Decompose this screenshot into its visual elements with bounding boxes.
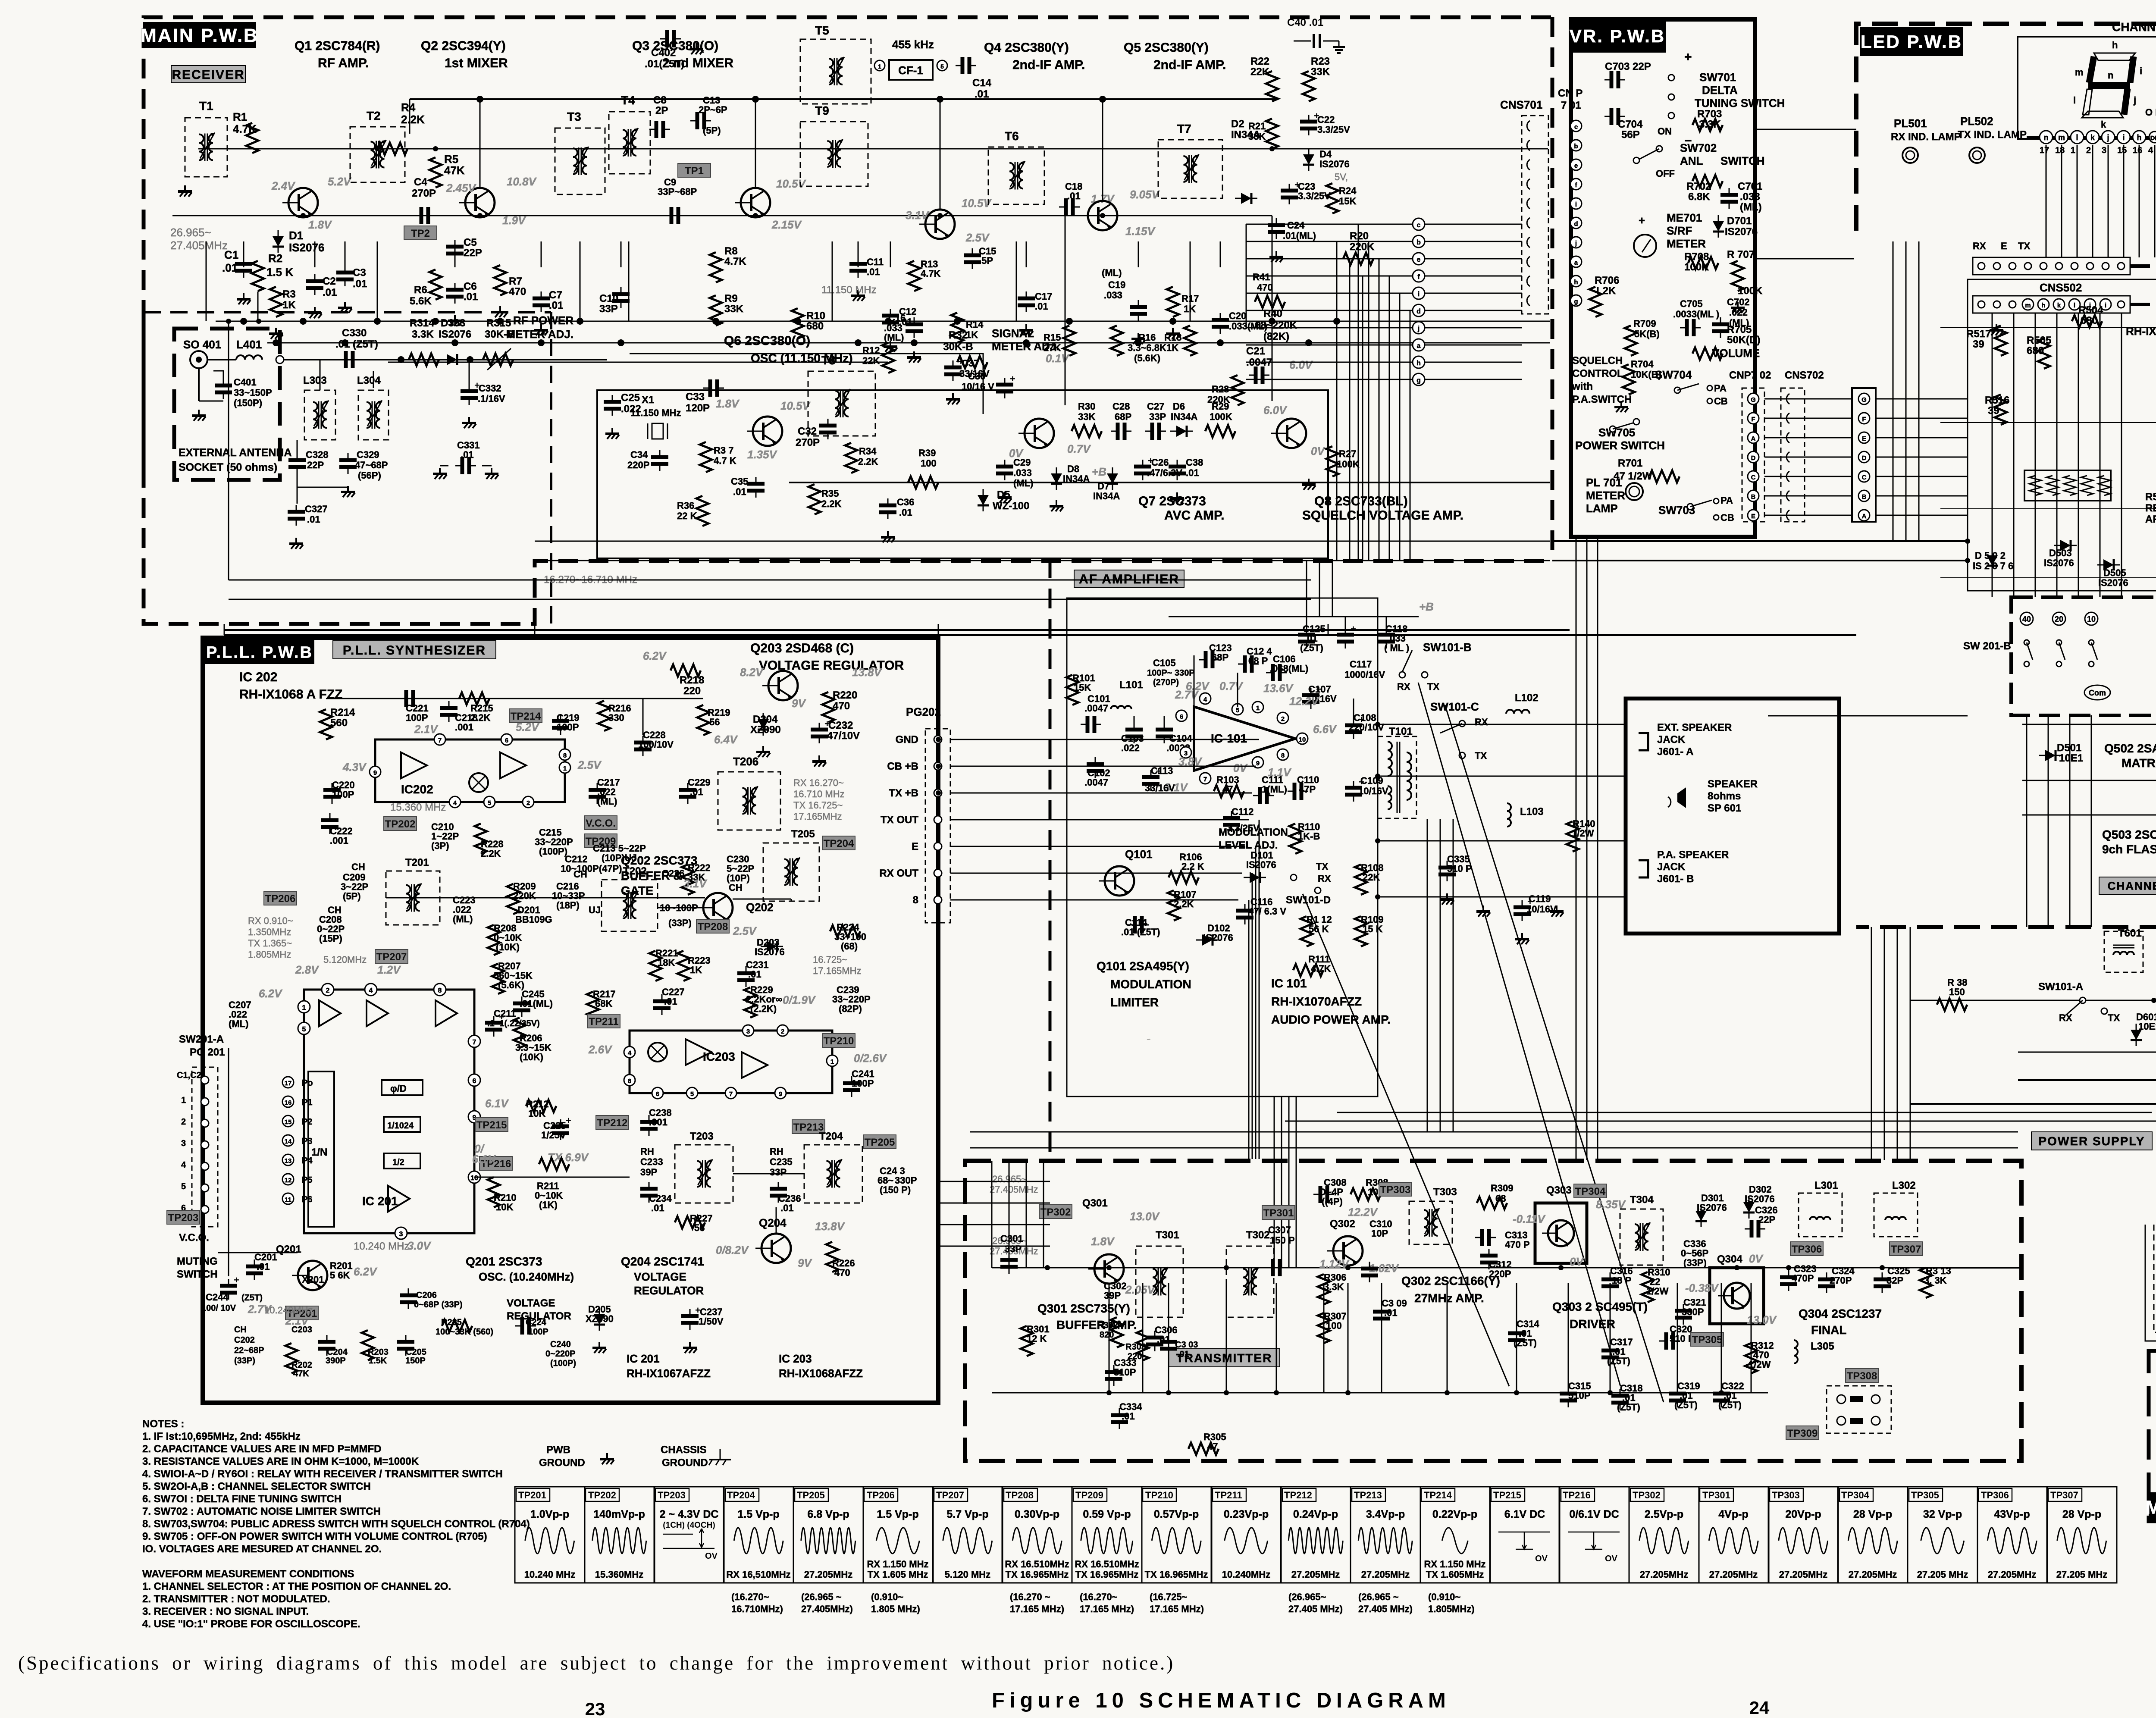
svg-text:D204: D204 bbox=[753, 714, 778, 725]
svg-text:3: 3 bbox=[746, 1028, 750, 1035]
svg-text:(16.270 ~: (16.270 ~ bbox=[1010, 1592, 1050, 1602]
pin IC101-5 bbox=[1232, 704, 1243, 715]
svg-text:E: E bbox=[1751, 513, 1755, 520]
svg-text:Q304 2SC1237: Q304 2SC1237 bbox=[1799, 1307, 1882, 1320]
waveform cell TP211 bbox=[1211, 1487, 1281, 1583]
capacitor C108 bbox=[1353, 718, 1354, 725]
svg-text:R225: R225 bbox=[441, 1318, 462, 1327]
test point TP201 bbox=[285, 1306, 318, 1320]
svg-text:L103: L103 bbox=[1520, 806, 1544, 818]
wire IC201 to T203 bbox=[474, 1177, 630, 1178]
wire PLL left bus bbox=[228, 1048, 229, 1276]
resistor R315 bbox=[483, 354, 513, 366]
capacitor C35 bbox=[755, 477, 757, 484]
svg-text:11.150 MHz: 11.150 MHz bbox=[821, 284, 877, 296]
wire bend bbox=[1246, 310, 1247, 328]
pin 5 bbox=[937, 60, 947, 71]
capacitor C315 bbox=[1568, 1387, 1569, 1394]
wire CNP702-CNS702 E bbox=[1764, 437, 1852, 439]
svg-text:METER: METER bbox=[1586, 489, 1625, 502]
svg-text:TX 16.965MHz: TX 16.965MHz bbox=[1145, 1569, 1208, 1580]
svg-text:TP303: TP303 bbox=[1380, 1184, 1411, 1196]
pin IC203-6 bbox=[652, 1087, 663, 1099]
receiver lower boundary dashes bbox=[144, 311, 551, 313]
svg-text:10.5V: 10.5V bbox=[776, 177, 807, 190]
pin main-c bbox=[1413, 218, 1425, 230]
capacitor C319 bbox=[1677, 1387, 1678, 1394]
wire component stub bbox=[345, 241, 346, 267]
svg-text:4: 4 bbox=[628, 1050, 632, 1057]
resistor R110 bbox=[1289, 824, 1301, 854]
svg-text:POWER SUPPLY: POWER SUPPLY bbox=[2038, 1134, 2145, 1148]
svg-text:C226: C226 bbox=[662, 868, 685, 879]
svg-text:100P~ 330P: 100P~ 330P bbox=[1147, 668, 1195, 678]
svg-text:1.5 Vp-p: 1.5 Vp-p bbox=[877, 1508, 918, 1520]
svg-text:CONTROL: CONTROL bbox=[1572, 368, 1623, 379]
speaker symbol bbox=[1677, 787, 1686, 808]
svg-text:TP302: TP302 bbox=[1040, 1206, 1071, 1218]
svg-text:TP208: TP208 bbox=[698, 921, 728, 933]
svg-text:d: d bbox=[1574, 220, 1578, 228]
svg-text:10: 10 bbox=[2087, 615, 2096, 623]
wire VR to transmitter bbox=[1586, 537, 1588, 1160]
svg-text:i: i bbox=[1575, 201, 1577, 208]
contact CNS701-5 bbox=[1527, 198, 1530, 209]
svg-text:27MHz AMP.: 27MHz AMP. bbox=[1414, 1291, 1484, 1305]
svg-text:56: 56 bbox=[709, 717, 720, 727]
svg-text:(0.910~: (0.910~ bbox=[871, 1592, 903, 1602]
capacitor C237 bbox=[689, 1309, 691, 1316]
svg-text:RF AMP.: RF AMP. bbox=[318, 56, 369, 70]
wire collector stub bbox=[479, 99, 481, 188]
contact CNS702-7 bbox=[1786, 510, 1789, 520]
wire PG202 to AF bbox=[950, 899, 1238, 901]
MAIN P.W.B board outline bbox=[144, 17, 1552, 471]
ground bbox=[857, 290, 859, 296]
svg-text:2: 2 bbox=[526, 799, 530, 807]
capacitor C23 bbox=[1289, 184, 1290, 191]
svg-text:24: 24 bbox=[1749, 1698, 1770, 1718]
svg-text:E: E bbox=[2001, 241, 2007, 251]
svg-text:j: j bbox=[2106, 133, 2109, 142]
wire main bottom bus bbox=[535, 541, 1550, 542]
svg-text:100K: 100K bbox=[1210, 411, 1232, 422]
svg-text:h: h bbox=[1574, 279, 1578, 286]
resistor R226 bbox=[826, 1242, 838, 1272]
svg-text:2P: 2P bbox=[655, 105, 668, 116]
capacitor C124 bbox=[1238, 664, 1245, 665]
svg-text:G: G bbox=[1861, 396, 1867, 404]
TP308 trimmer box bbox=[1827, 1386, 1891, 1433]
PWB boundary dash vertical bbox=[1049, 558, 1052, 1160]
capacitor C314 bbox=[1516, 1326, 1517, 1333]
coil bbox=[1885, 1217, 1906, 1220]
svg-text:CHANNEL IND: CHANNEL IND bbox=[2108, 879, 2156, 892]
junction bbox=[1514, 1390, 1519, 1395]
svg-text:LIMITER: LIMITER bbox=[1110, 996, 1159, 1009]
connector CNS702 bbox=[1781, 388, 1805, 522]
junction bbox=[1965, 539, 1970, 544]
wire RX/TX diagonal 1 bbox=[1418, 683, 1620, 1386]
svg-text:3.3K: 3.3K bbox=[1699, 119, 1721, 130]
wire LED horizontal bbox=[1940, 577, 2156, 578]
capacitor C119 bbox=[1522, 900, 1523, 907]
diode D2 bbox=[1241, 193, 1251, 204]
capacitor C4 bbox=[414, 215, 421, 216]
svg-text:27.405MHz: 27.405MHz bbox=[990, 1184, 1038, 1195]
wire left riser bbox=[228, 321, 229, 580]
pin IC201-5 bbox=[298, 1022, 310, 1034]
svg-text:L101: L101 bbox=[1119, 679, 1143, 691]
svg-text:P.A. SPEAKER: P.A. SPEAKER bbox=[1657, 849, 1729, 861]
wire AF stub bbox=[1353, 699, 1354, 719]
wire Q202 to T205 bbox=[733, 899, 791, 900]
wire CNP702-CNS702 D bbox=[1764, 457, 1852, 458]
wire transformer drop bbox=[1190, 241, 1191, 321]
ground bbox=[1556, 905, 1557, 912]
pin IC203-4 bbox=[624, 1046, 635, 1058]
svg-text:220K: 220K bbox=[1207, 394, 1230, 405]
resistor R111 bbox=[1293, 964, 1323, 976]
wire AF stub bbox=[1345, 617, 1346, 633]
svg-text:68K: 68K bbox=[595, 998, 612, 1009]
svg-text:(5P): (5P) bbox=[703, 125, 721, 136]
wire VR to transmitter bbox=[1597, 537, 1598, 1160]
svg-text:TP305: TP305 bbox=[1692, 1334, 1723, 1346]
wire CNS701 cable right bbox=[1425, 362, 1522, 363]
capacitor C317 bbox=[1610, 1344, 1611, 1350]
resistor R208 bbox=[488, 925, 500, 955]
svg-text:D1: D1 bbox=[289, 229, 303, 242]
capacitor C2 bbox=[314, 274, 316, 281]
wire AF to speaker bbox=[1378, 776, 1626, 777]
svg-text:C232: C232 bbox=[828, 720, 853, 731]
svg-text:9. SW705 : OFF-ON POWER S: 9. SW705 : OFF-ON POWER SWITCH WITH VOLU… bbox=[142, 1531, 487, 1542]
svg-text:J601- A: J601- A bbox=[1657, 746, 1694, 758]
wire LED to SW201B bbox=[2013, 313, 2015, 597]
ground bbox=[599, 1342, 600, 1348]
svg-text:.01: .01 bbox=[464, 291, 478, 303]
svg-text:R 707: R 707 bbox=[1727, 249, 1755, 260]
svg-text:j: j bbox=[1417, 325, 1420, 332]
wire transmitter ground stub bbox=[1142, 1283, 1144, 1393]
resistor R229 bbox=[744, 987, 756, 1018]
svg-text:TP205: TP205 bbox=[797, 1490, 825, 1501]
svg-text:(100P): (100P) bbox=[550, 1359, 576, 1368]
svg-text:150 P: 150 P bbox=[1270, 1235, 1295, 1246]
svg-text:4.7K: 4.7K bbox=[233, 122, 257, 135]
svg-text:MODULATION: MODULATION bbox=[1110, 977, 1191, 991]
pin CNP701-a bbox=[1570, 256, 1582, 267]
LED circuit area outline bbox=[1968, 279, 2156, 591]
svg-text:RX 16,510MHz: RX 16,510MHz bbox=[726, 1569, 790, 1580]
svg-text:(26.965 ~: (26.965 ~ bbox=[801, 1592, 842, 1602]
svg-text:T601: T601 bbox=[2118, 927, 2142, 939]
svg-text:C: C bbox=[1862, 474, 1867, 481]
svg-text:j: j bbox=[1575, 240, 1577, 247]
wire AF to transmitter drop bbox=[1288, 1097, 1290, 1268]
svg-text:T101: T101 bbox=[1389, 726, 1413, 737]
svg-text:TP210: TP210 bbox=[1145, 1490, 1173, 1501]
svg-text:TP307: TP307 bbox=[1891, 1244, 1921, 1255]
svg-text:C30: C30 bbox=[968, 371, 985, 382]
junction bbox=[398, 357, 404, 362]
svg-text:D8: D8 bbox=[1067, 464, 1079, 474]
svg-text:0.59 Vp-p: 0.59 Vp-p bbox=[1083, 1508, 1131, 1520]
svg-text:7. SW702 : AUTOMATIC NOISE: 7. SW702 : AUTOMATIC NOISE LIMITER SWITC… bbox=[142, 1506, 381, 1517]
junction bbox=[398, 356, 404, 363]
svg-text:22K: 22K bbox=[1363, 872, 1380, 883]
svg-text:C235: C235 bbox=[770, 1156, 793, 1167]
wire main-to-LED bus 2 bbox=[1552, 560, 1968, 561]
svg-text:(56P): (56P) bbox=[358, 470, 381, 481]
svg-text:Q1 2SC784(R): Q1 2SC784(R) bbox=[295, 39, 380, 53]
junction bbox=[1786, 1265, 1791, 1270]
svg-text:C22: C22 bbox=[1317, 114, 1335, 125]
pin IC201-11 bbox=[282, 1193, 294, 1204]
terminal bbox=[1291, 874, 1297, 880]
svg-text:R5 01: R5 01 bbox=[2145, 491, 2156, 503]
svg-text:4Vp-p: 4Vp-p bbox=[1718, 1508, 1748, 1520]
pin main-h bbox=[1413, 356, 1425, 368]
junction bbox=[497, 318, 504, 325]
wire PG202 to AF bbox=[950, 793, 1252, 794]
svg-text:R35: R35 bbox=[821, 488, 839, 499]
wire AF to speaker bbox=[1378, 896, 1626, 898]
svg-text:6. SW7OI : DELTA FINE TUN: 6. SW7OI : DELTA FINE TUNING SWITCH bbox=[142, 1493, 342, 1505]
waveform cell TP212 bbox=[1281, 1487, 1351, 1583]
resistor R140 bbox=[1567, 821, 1579, 852]
ground bbox=[275, 328, 277, 334]
transformer T204 bbox=[804, 1145, 862, 1203]
svg-text:F: F bbox=[1862, 416, 1866, 423]
pin CNS502 bbox=[2009, 301, 2016, 308]
svg-text:100K: 100K bbox=[1337, 459, 1360, 470]
svg-text:23: 23 bbox=[585, 1699, 605, 1718]
svg-text:6.2V: 6.2V bbox=[259, 987, 283, 1000]
svg-text:f: f bbox=[1417, 273, 1420, 281]
pin conn1 bbox=[2024, 263, 2031, 269]
svg-text:Q304: Q304 bbox=[1717, 1253, 1742, 1265]
resistor R228 bbox=[475, 824, 487, 854]
svg-text:+: + bbox=[1010, 373, 1015, 384]
waveform cell TP302 bbox=[1629, 1487, 1699, 1583]
section label POWER SUPPLY bbox=[2031, 1132, 2152, 1150]
svg-text:T5: T5 bbox=[815, 24, 829, 37]
svg-text:220K: 220K bbox=[513, 890, 536, 901]
wire C401 tap bbox=[213, 371, 223, 379]
wire AGC bus bbox=[267, 342, 1550, 344]
transformer T201 bbox=[386, 871, 440, 925]
junction bbox=[1734, 1265, 1739, 1270]
ground bbox=[1056, 500, 1057, 506]
svg-text:.001: .001 bbox=[649, 1117, 667, 1128]
test point TP216 bbox=[479, 1156, 512, 1170]
test point TP308 bbox=[1846, 1369, 1878, 1382]
waveform cell TP210 bbox=[1142, 1487, 1212, 1583]
svg-text:TX: TX bbox=[1316, 861, 1328, 872]
svg-text:15.360MHz: 15.360MHz bbox=[595, 1569, 644, 1580]
transformer T2 bbox=[350, 127, 405, 182]
test point TP204 bbox=[822, 836, 855, 850]
svg-text:33K: 33K bbox=[1078, 411, 1095, 422]
svg-text:1.5K: 1.5K bbox=[369, 1356, 387, 1366]
contact CNS701-6 bbox=[1527, 218, 1530, 228]
pin main-d bbox=[1413, 304, 1425, 316]
svg-text:TX: TX bbox=[2018, 241, 2030, 251]
svg-text:C34: C34 bbox=[630, 449, 648, 460]
svg-text:4.7K: 4.7K bbox=[724, 256, 746, 267]
svg-text:0.7V: 0.7V bbox=[1219, 680, 1244, 692]
resistor R309 bbox=[1477, 1197, 1507, 1209]
chassis ground symbol bbox=[720, 1449, 721, 1460]
svg-text:270P: 270P bbox=[1830, 1275, 1852, 1286]
svg-text:TP202: TP202 bbox=[385, 818, 416, 830]
svg-text:IC 202: IC 202 bbox=[239, 670, 277, 684]
pin IC101-6 bbox=[1176, 710, 1187, 721]
svg-text:(Z5T): (Z5T) bbox=[1718, 1400, 1742, 1410]
pin main-e bbox=[1413, 253, 1425, 265]
svg-text:C14: C14 bbox=[972, 77, 992, 89]
svg-text:11: 11 bbox=[285, 1196, 291, 1203]
wire +B bus main bbox=[789, 482, 1550, 483]
capacitor C227 bbox=[661, 994, 663, 1001]
svg-text:27.405MHz: 27.405MHz bbox=[170, 239, 228, 252]
pin CNP702-G bbox=[1748, 393, 1759, 404]
capacitor C333 bbox=[1113, 1365, 1115, 1372]
wire L304 feed bbox=[373, 371, 374, 388]
pin DP bbox=[2149, 132, 2156, 143]
switch contact bbox=[2024, 640, 2029, 645]
diode D505 bbox=[2103, 559, 2114, 570]
section label AF AMPLIFIER bbox=[1074, 570, 1184, 587]
waveform cell TP216 bbox=[1559, 1487, 1629, 1583]
svg-text:TP206: TP206 bbox=[265, 893, 296, 905]
capacitor C222 bbox=[329, 813, 331, 820]
terminal bbox=[2101, 1008, 2107, 1014]
wire AF stub bbox=[1306, 617, 1307, 633]
svg-text:0.7V: 0.7V bbox=[1067, 442, 1091, 455]
speaker jack block outline bbox=[1626, 699, 1839, 934]
svg-text:5: 5 bbox=[302, 1026, 306, 1033]
svg-text:(68): (68) bbox=[841, 941, 858, 952]
wire CNP702-CNS702 G bbox=[1764, 398, 1852, 400]
svg-text:.01: .01 bbox=[323, 287, 337, 298]
svg-text:C7: C7 bbox=[549, 289, 562, 301]
svg-text:A: A bbox=[1862, 513, 1867, 520]
junction bbox=[936, 790, 941, 796]
ground bbox=[1737, 302, 1739, 308]
svg-text:UJ: UJ bbox=[589, 905, 601, 915]
svg-text:5.2V: 5.2V bbox=[516, 721, 540, 733]
wire inter-board vertical bbox=[224, 624, 225, 635]
svg-text:MUTING: MUTING bbox=[177, 1256, 218, 1267]
svg-text:(100P): (100P) bbox=[539, 846, 567, 857]
pin PG202 TX +B bbox=[934, 789, 942, 797]
svg-text:GROUND: GROUND bbox=[662, 1457, 708, 1469]
Q303 driver thick box bbox=[1535, 1203, 1587, 1263]
pin CNS502 bbox=[2118, 301, 2125, 308]
svg-text:27.405 MHz): 27.405 MHz) bbox=[1358, 1604, 1413, 1614]
wire bend bbox=[1246, 224, 1247, 241]
capacitor C21 bbox=[1249, 375, 1256, 376]
wire LED horizontal bbox=[1940, 508, 2156, 509]
svg-text:h: h bbox=[1416, 360, 1421, 367]
wire AF right verticals bbox=[1440, 819, 1441, 1132]
capacitor C38 bbox=[1177, 460, 1178, 467]
capacitor C402 bbox=[660, 38, 667, 40]
svg-text:TP214: TP214 bbox=[1424, 1490, 1452, 1501]
svg-text:0V: 0V bbox=[1570, 1255, 1584, 1268]
svg-text:10.240MHz: 10.240MHz bbox=[264, 1305, 313, 1316]
svg-text:(270P): (270P) bbox=[1153, 678, 1179, 687]
svg-text:+: + bbox=[234, 1275, 239, 1285]
capacitor C204 bbox=[326, 1335, 328, 1342]
svg-text:m: m bbox=[2075, 67, 2084, 78]
svg-text:150P: 150P bbox=[405, 1356, 426, 1366]
svg-text:(82P): (82P) bbox=[839, 1003, 862, 1014]
test point V.C.O. bbox=[584, 816, 617, 830]
wire C331 left bbox=[440, 465, 448, 467]
svg-text:XZ090: XZ090 bbox=[586, 1313, 614, 1324]
transformer T304 bbox=[1620, 1209, 1663, 1265]
svg-text:2.45V: 2.45V bbox=[446, 182, 477, 194]
svg-text:6.6V: 6.6V bbox=[1313, 723, 1337, 736]
pin CNP702-F bbox=[1748, 413, 1759, 424]
wire LED to SW201B bbox=[2078, 313, 2079, 597]
wire PG202 to AF bbox=[950, 819, 1249, 821]
capacitor C241 bbox=[851, 1076, 852, 1083]
svg-text:a: a bbox=[1417, 342, 1421, 350]
pin IC201-16 bbox=[282, 1096, 294, 1107]
svg-text:7: 7 bbox=[1203, 776, 1207, 783]
svg-text:33/16V: 33/16V bbox=[1145, 783, 1175, 793]
svg-text:CB: CB bbox=[1720, 512, 1734, 523]
svg-text:220K: 220K bbox=[1350, 241, 1375, 253]
terminal bbox=[1459, 721, 1465, 727]
svg-text:GROUND: GROUND bbox=[539, 1457, 585, 1469]
resistor R310 bbox=[1642, 1272, 1654, 1302]
junction bbox=[451, 339, 458, 346]
svg-text:R18: R18 bbox=[1164, 332, 1181, 343]
svg-text:.0047: .0047 bbox=[1084, 777, 1108, 788]
wire AF to transmitter drop bbox=[1296, 1097, 1297, 1268]
svg-text:2: 2 bbox=[2086, 146, 2091, 155]
svg-text:Q6 2SC380(O): Q6 2SC380(O) bbox=[724, 334, 810, 348]
connector CNS701 bbox=[1522, 116, 1548, 314]
wire collector stub bbox=[409, 99, 411, 134]
wire component stub bbox=[314, 241, 316, 267]
svg-text:10/16V: 10/16V bbox=[1526, 904, 1557, 915]
svg-text:REGULATOR: REGULATOR bbox=[507, 1310, 571, 1322]
mixer circle in IC202 bbox=[469, 773, 488, 792]
svg-text:TP212: TP212 bbox=[1284, 1490, 1312, 1501]
svg-text:φ/D: φ/D bbox=[390, 1083, 407, 1094]
svg-text:C4: C4 bbox=[414, 176, 427, 188]
svg-text:10: 10 bbox=[1299, 736, 1306, 743]
junction bbox=[1106, 1390, 1112, 1395]
pin IC201-4 bbox=[365, 984, 377, 996]
svg-text:3: 3 bbox=[399, 1231, 403, 1238]
wire T202 to Q202 bbox=[658, 907, 703, 909]
test point TP305 bbox=[1691, 1332, 1724, 1346]
ground bbox=[540, 324, 542, 330]
svg-text:14: 14 bbox=[285, 1138, 292, 1145]
capacitor C307 bbox=[1266, 1267, 1273, 1269]
ground bbox=[1521, 933, 1523, 939]
junction bbox=[1608, 1390, 1613, 1395]
svg-text:R703: R703 bbox=[1697, 108, 1722, 120]
